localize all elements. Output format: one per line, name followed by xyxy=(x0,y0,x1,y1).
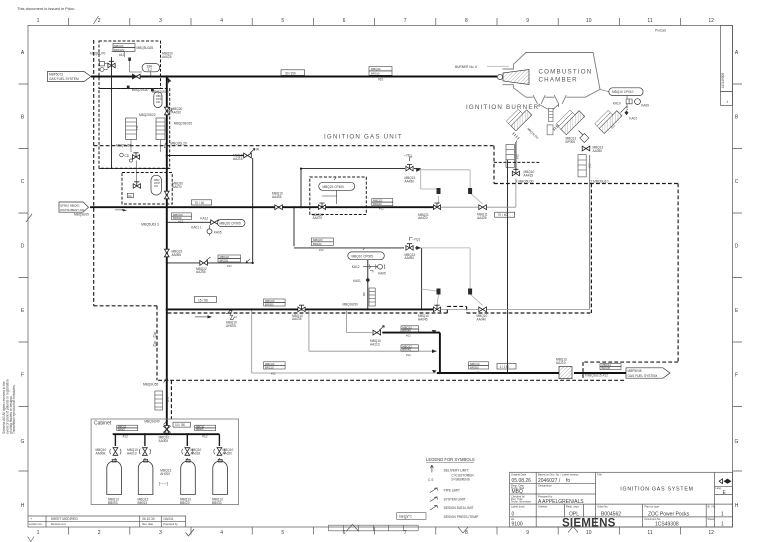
svg-text:4: 4 xyxy=(220,530,223,536)
svg-text:LEGEND FOR SYMBOLS: LEGEND FOR SYMBOLS xyxy=(426,457,475,462)
svg-text:2046027 /: 2046027 / xyxy=(538,478,561,484)
svg-text:MBQSU55: MBQSU55 xyxy=(143,383,158,387)
svg-text:Revision text: Revision text xyxy=(51,522,66,526)
boundary: unit upper-right edge xyxy=(494,183,678,185)
svg-text:BR007: BR007 xyxy=(118,428,126,431)
svg-text:0: 0 xyxy=(512,512,515,518)
svg-text:1CS49308: 1CS49308 xyxy=(655,521,679,527)
vertical label boxes xyxy=(155,145,592,411)
svg-text:30 /190: 30 /190 xyxy=(285,71,296,75)
node MBP5045 gas fuel system outlet flag xyxy=(626,368,670,378)
svg-text:1: 1 xyxy=(727,100,729,104)
svg-text:QFB10 MBQ01: QFB10 MBQ01 xyxy=(60,203,80,207)
node MBP5073 gas fuel system inlet flag xyxy=(48,72,92,82)
svg-text:AA040: AA040 xyxy=(477,318,487,322)
svg-text:Prepared by: Prepared by xyxy=(538,494,553,498)
right ticks xyxy=(733,84,743,471)
big dashed unit boundary xyxy=(94,40,678,419)
bottom-left revision table xyxy=(28,516,186,527)
gray actuator loops xyxy=(421,170,483,306)
svg-text:BB013: BB013 xyxy=(138,501,148,505)
stacked 2row labels xyxy=(195,67,621,431)
svg-text:9: 9 xyxy=(526,530,529,536)
wire: CP005 sensing line xyxy=(367,259,369,309)
gray secondary lines xyxy=(252,155,590,373)
svg-text:Prepared by: Prepared by xyxy=(164,522,179,526)
svg-text:RA1: RA1 xyxy=(164,126,168,132)
valve MBQ10 AA045 on H5 xyxy=(418,305,441,321)
svg-text:AA020: AA020 xyxy=(223,451,233,455)
svg-text:MBQ20 CF905: MBQ20 CF905 xyxy=(220,222,241,226)
svg-text:Letzten rev.: Letzten rev. xyxy=(29,522,43,526)
svg-text:G: G xyxy=(735,439,739,445)
svg-text:6: 6 xyxy=(343,18,346,24)
wire: cabinet bottle manifold xyxy=(113,433,220,435)
main pipe lines dark xyxy=(90,77,626,435)
svg-text:BR010: BR010 xyxy=(371,71,380,75)
svg-text:AA213: AA213 xyxy=(370,342,380,346)
svg-text:S=SIEMENS: S=SIEMENS xyxy=(451,478,469,482)
svg-text:BR205: BR205 xyxy=(220,259,229,263)
param boxes xyxy=(173,70,516,427)
svg-text:TMBQSU15 #12: TMBQSU15 #12 xyxy=(585,373,609,377)
svg-text:#12: #12 xyxy=(178,220,184,224)
boundary: unit edge rise at burner xyxy=(493,146,495,184)
wire: lower header to outlet line xyxy=(252,309,437,373)
svg-text:2: 2 xyxy=(98,18,101,24)
boundary: delivery limit to cabinet xyxy=(170,380,172,419)
svg-text:+: + xyxy=(30,517,32,521)
svg-text:#10: #10 xyxy=(378,78,384,82)
svg-text:BR010V: BR010V xyxy=(114,48,125,52)
bottom ticks xyxy=(69,527,681,535)
svg-text:H: H xyxy=(21,503,25,509)
svg-text:Rev. date: Rev. date xyxy=(142,522,153,526)
svg-text:Plant or type: Plant or type xyxy=(645,504,660,508)
svg-text:AA430: AA430 xyxy=(405,179,415,183)
wire: ignition gas line MBQ10 lower header xyxy=(167,308,433,310)
boundary: burner interface stub xyxy=(494,161,540,163)
svg-text:ProCad: ProCad xyxy=(655,29,666,33)
svg-text:Document No.: Document No. xyxy=(645,517,662,521)
svg-text:Based on Doc. No. / Latest rev: Based on Doc. No. / Latest revision xyxy=(538,473,579,477)
wire: gas branch to valve MBQ13 AA450 xyxy=(294,207,404,248)
wire: vent branch to valve MBQ20 AA215 xyxy=(167,155,245,157)
svg-text:KA05: KA05 xyxy=(378,272,386,276)
valve MBQ12 AA470 in CP400 box xyxy=(313,203,326,220)
svg-text:BP005: BP005 xyxy=(566,140,576,144)
svg-text:C: C xyxy=(21,179,25,185)
svg-text:MBQ23 CP400: MBQ23 CP400 xyxy=(323,185,345,189)
svg-text:D: D xyxy=(21,244,25,250)
svg-text:#12: #12 xyxy=(119,53,125,57)
svg-text:1CS49308: 1CS49308 xyxy=(721,73,725,88)
valve MBQ10 AA415 igniter air xyxy=(512,169,534,183)
svg-text:BR050: BR050 xyxy=(470,365,479,369)
svg-text:#12: #12 xyxy=(406,334,411,338)
svg-text:AA415: AA415 xyxy=(524,173,534,177)
left lance xyxy=(506,105,532,131)
KA cluster left xyxy=(141,213,245,236)
valve MBQ21 AA420 xyxy=(418,203,441,220)
svg-text:Original Date: Original Date xyxy=(511,473,527,477)
svg-text:MBQ5U05: MBQ5U05 xyxy=(74,213,89,217)
valve MBQ13 AA450 xyxy=(405,238,421,261)
svg-text:AA010: AA010 xyxy=(172,111,182,115)
svg-text:AA405: AA405 xyxy=(272,195,282,199)
svg-text:MBQSU40: MBQSU40 xyxy=(144,420,159,424)
wire: outlet header to slide valve xyxy=(437,372,561,374)
valve MBQ10 AA040 on H5 xyxy=(477,307,488,322)
svg-text:COMBUSTION: COMBUSTION xyxy=(539,69,593,76)
svg-text:Sheet: Sheet xyxy=(708,517,715,521)
svg-text:AA045: AA045 xyxy=(418,318,428,322)
svg-text:#12: #12 xyxy=(475,371,480,375)
valve MBQ13 AA430 xyxy=(404,154,416,184)
svg-text:CD: CD xyxy=(125,154,130,158)
svg-text:KA12: KA12 xyxy=(200,216,208,220)
vert stadium below B1 xyxy=(154,92,163,108)
hatched slide valve MBQ13 AA210 xyxy=(556,358,572,379)
svg-text:#12: #12 xyxy=(202,435,208,439)
boundary: unit left edge xyxy=(93,40,95,306)
svg-text:040: 040 xyxy=(156,101,161,104)
svg-text:BR040: BR040 xyxy=(402,329,411,333)
svg-text:12: 12 xyxy=(708,18,714,24)
svg-text:F: F xyxy=(735,373,738,379)
vent valve W at 249,155.5 xyxy=(233,148,259,162)
CP400 box contents xyxy=(319,178,355,205)
wire: central gas supply riser MBQ10 xyxy=(166,77,168,435)
svg-text:Techn. dimension: Techn. dimension xyxy=(511,500,532,504)
KA chain right xyxy=(609,88,649,121)
svg-text:7: 7 xyxy=(404,18,407,24)
svg-text:fo: fo xyxy=(566,478,570,484)
svg-text:H: H xyxy=(735,503,739,509)
wire: AA450 gas drop to lower header xyxy=(421,248,423,310)
svg-text:AA013: AA013 xyxy=(127,451,137,455)
svg-text:BR045: BR045 xyxy=(402,348,411,352)
svg-text:SYSTEM LIMIT: SYSTEM LIMIT xyxy=(444,498,466,502)
svg-text:GAS FUEL SYSTEM: GAS FUEL SYSTEM xyxy=(628,374,658,378)
wire: air line AA420 to AA425 xyxy=(441,206,478,208)
svg-text:HL: HL xyxy=(511,517,515,521)
hand valve MBQBU70 xyxy=(100,61,116,71)
svg-text:MBQBU70: MBQBU70 xyxy=(90,52,105,56)
svg-text:MBQ: MBQ xyxy=(512,489,524,495)
svg-text:AA035: AA035 xyxy=(292,317,302,321)
combustion chamber outline xyxy=(503,53,601,108)
svg-text:CHAMBER: CHAMBER xyxy=(539,77,578,84)
svg-text:KA12: KA12 xyxy=(352,265,360,269)
svg-text:MBQ5U325: MBQ5U325 xyxy=(137,46,154,50)
svg-text:Order No.: Order No. xyxy=(597,504,609,508)
svg-text:12: 12 xyxy=(708,530,714,536)
svg-text:BB033: BB033 xyxy=(212,501,222,505)
burner nozzle xyxy=(497,70,529,85)
svg-text:AA206: AA206 xyxy=(196,270,206,274)
svg-text:70 / 60: 70 / 60 xyxy=(498,213,508,217)
svg-text:10: 10 xyxy=(586,530,592,536)
wire: air line AA425 up to igniter valve AA415 xyxy=(487,178,516,207)
svg-text:IGNITION GAS SYSTEM: IGNITION GAS SYSTEM xyxy=(620,487,693,493)
wire: AA430 outlet stub xyxy=(414,168,421,170)
box: pressure reducing skid stage 2 xyxy=(99,89,170,169)
svg-text:MBQSU65: MBQSU65 xyxy=(116,144,131,148)
boundary: unit right edge xyxy=(677,184,679,363)
valve MBQ20 AA010 xyxy=(164,107,182,115)
svg-text:BB023: BB023 xyxy=(180,501,190,505)
svg-text:#12: #12 xyxy=(379,207,384,211)
svg-text:9: 9 xyxy=(526,18,529,24)
valve MBQ11 AA425 xyxy=(477,205,488,220)
svg-text:1: 1 xyxy=(721,522,724,528)
svg-text:This document is issued in Pdo: This document is issued in Pdoc. xyxy=(17,6,75,11)
svg-text:AH005: AH005 xyxy=(226,324,236,328)
svg-text:KA01: KA01 xyxy=(353,279,361,283)
svg-text:MBQSU50: MBQSU50 xyxy=(343,303,358,307)
box: pressure reducing skid stage 3 xyxy=(122,173,172,205)
wire: instrument air header QFB10/MBQ01 xyxy=(90,206,433,208)
svg-text:70 / 40: 70 / 40 xyxy=(195,201,205,205)
svg-text:BB003: BB003 xyxy=(108,501,118,505)
valve MBQ10 AA005 above cabinet xyxy=(159,426,171,444)
delivery limit markers xyxy=(164,380,167,425)
top-right doc tab xyxy=(721,25,733,105)
center-right gas lance xyxy=(556,106,585,135)
svg-text:C: C xyxy=(735,179,739,185)
valve MBQ13 AA050 xyxy=(582,146,603,154)
B3 inner valve xyxy=(127,182,140,198)
svg-text:BR020: BR020 xyxy=(313,242,322,246)
svg-text:AA008: AA008 xyxy=(96,451,106,455)
top ticks xyxy=(69,18,681,25)
squiggle hose on D11 xyxy=(226,311,237,320)
svg-text:ZOC Power Pocks: ZOC Power Pocks xyxy=(648,512,690,518)
svg-text:W: W xyxy=(256,148,259,152)
wire: pilot air loop to actuators of AA420/AA425 xyxy=(421,170,470,193)
boundary: outlet box top xyxy=(583,361,678,363)
svg-text:F: F xyxy=(21,373,24,379)
svg-text:AA050: AA050 xyxy=(593,149,603,153)
boundary: ignition gas unit top edge xyxy=(94,145,494,147)
svg-text:1 / 150: 1 / 150 xyxy=(500,365,510,369)
svg-text:#12: #12 xyxy=(271,372,276,376)
svg-text:AH010: AH010 xyxy=(160,472,170,476)
wire: vent branch 2 xyxy=(309,311,437,351)
wire: gas fuel system outlet to MBP5045 xyxy=(574,372,626,374)
B2 CD valve xyxy=(120,153,140,162)
svg-text:G: G xyxy=(21,439,25,445)
svg-text:11: 11 xyxy=(647,530,652,536)
center tube xyxy=(539,105,558,135)
svg-text:AA065: AA065 xyxy=(172,253,182,257)
bottom center fold band xyxy=(28,525,579,542)
svg-text:AA070: AA070 xyxy=(172,185,182,189)
svg-text:~YE1: ~YE1 xyxy=(404,154,412,158)
wire: pressure reducing branch at MBQBU70 xyxy=(111,57,113,168)
svg-text:DELIVERY LIMIT:: DELIVERY LIMIT: xyxy=(444,469,469,473)
wire: igniter air lance feed xyxy=(515,142,517,170)
svg-text:AA420: AA420 xyxy=(418,216,428,220)
svg-text:MBQ20E015: MBQ20E015 xyxy=(174,121,192,125)
wire: actuator stems AA045/AA040 xyxy=(437,294,483,306)
svg-text:10 / 56: 10 / 56 xyxy=(175,423,185,427)
flow arrows xyxy=(115,77,437,382)
svg-text:Cabinet: Cabinet xyxy=(94,421,112,427)
wire: gas line AA045 to AA040 xyxy=(437,308,478,310)
svg-text:#12: #12 xyxy=(319,248,324,252)
svg-text:#12: #12 xyxy=(227,264,232,268)
svg-text:MBQ5U63 3: MBQ5U63 3 xyxy=(141,223,159,227)
svg-text:DA/CA: DA/CA xyxy=(164,517,175,521)
svg-text:1: 1 xyxy=(37,530,40,536)
fold slashes xyxy=(26,16,99,222)
svg-text:KA05: KA05 xyxy=(214,231,222,235)
left ticks xyxy=(19,84,29,471)
svg-text:Title: Title xyxy=(597,473,602,477)
wire: gas line AA040 up to igniter lance xyxy=(487,308,590,310)
small KA valve xyxy=(211,220,219,225)
svg-text:3: 3 xyxy=(159,530,162,536)
svg-text:MBP5073: MBP5073 xyxy=(49,72,63,76)
svg-text:Lang.: Lang. xyxy=(716,487,722,490)
svg-text:06.10.30: 06.10.30 xyxy=(142,517,155,521)
svg-text:05.08.26: 05.08.26 xyxy=(512,478,532,484)
wire: pilot gas loop to actuators of AA045/AA040 xyxy=(422,248,471,289)
svg-text:KA01: KA01 xyxy=(629,117,637,121)
svg-text:MBQ20S15: MBQ20S15 xyxy=(152,90,169,94)
svg-text:Latest trans: Latest trans xyxy=(511,504,525,508)
svg-text:1: 1 xyxy=(721,512,724,518)
svg-text:#12: #12 xyxy=(406,353,411,357)
wire: AA450 outlet stub xyxy=(415,247,421,249)
svg-text:AA025: AA025 xyxy=(162,55,172,59)
svg-text:MBQ40: MBQ40 xyxy=(371,67,381,71)
svg-text:Bl. i.W.: Bl. i.W. xyxy=(708,504,716,508)
svg-text:11: 11 xyxy=(647,18,652,24)
svg-text:DESIGN PRESS./TEMP.: DESIGN PRESS./TEMP. xyxy=(444,515,479,519)
node QFB10/MBQ01 instrument air inlet flag xyxy=(59,202,89,217)
svg-text:Ø8: Ø8 xyxy=(362,292,366,296)
valve MBQ10 AA405 xyxy=(272,192,283,210)
svg-text:5: 5 xyxy=(281,530,284,536)
svg-text:SIEMENS: SIEMENS xyxy=(562,517,616,530)
svg-text:IGNITION BURNER: IGNITION BURNER xyxy=(466,104,539,111)
svg-text:A APPELGREN/ALS: A APPELGREN/ALS xyxy=(538,499,584,505)
svg-text:1: 1 xyxy=(37,18,40,24)
svg-text:010: 010 xyxy=(154,185,159,188)
wire: vent drop pipe xyxy=(252,158,254,263)
bottle valves xyxy=(110,448,225,456)
svg-text:~YQ1: ~YQ1 xyxy=(412,238,420,242)
wire: branch to valve MBQ22 AA206 xyxy=(167,262,253,264)
svg-text:Transmittal reproduction forbi: Transmittal reproduction forbidden. xyxy=(12,385,16,434)
svg-text:AA215: AA215 xyxy=(233,157,243,161)
svg-text:BR210: BR210 xyxy=(265,365,274,369)
actuator boxes + stems (gray loops ends) xyxy=(437,188,473,295)
svg-text:3: 3 xyxy=(159,18,162,24)
svg-text:#12: #12 xyxy=(516,154,520,159)
svg-text:2 MBQSU10: 2 MBQSU10 xyxy=(591,180,609,184)
svg-text:AA005: AA005 xyxy=(159,439,169,443)
svg-text:8: 8 xyxy=(465,18,468,24)
relief stadium 18A 3.2 xyxy=(142,64,160,77)
right igniter lance xyxy=(595,106,622,133)
wire: vent line to outlet junction xyxy=(382,333,440,373)
CP005 + KA right cluster xyxy=(343,248,387,307)
wire: reducing station bottom header xyxy=(99,168,170,170)
svg-text:AA450: AA450 xyxy=(405,256,415,260)
svg-text:BR045: BR045 xyxy=(602,366,611,370)
svg-text:PIPE LIMIT: PIPE LIMIT xyxy=(444,489,460,493)
svg-text:[∼∼]: [∼∼] xyxy=(159,481,168,486)
wire: pilot air line to valve MBQ13 AA430 xyxy=(301,168,405,170)
svg-text:AA210: AA210 xyxy=(556,361,566,365)
svg-text:C S: C S xyxy=(428,478,433,482)
svg-text:8: 8 xyxy=(465,530,468,536)
vent valve MBQ10 AA213 xyxy=(370,326,384,347)
svg-text:GAS FUEL SYSTEM: GAS FUEL SYSTEM xyxy=(49,77,79,81)
valve MBQ22 AA206 xyxy=(196,257,211,274)
box: pressure switch MBQ23 CP400 xyxy=(310,177,367,215)
box: pressure reducing skid stage 1 xyxy=(99,41,161,89)
svg-text:#12: #12 xyxy=(135,125,139,130)
svg-text:MBP5045: MBP5045 xyxy=(628,369,642,373)
svg-text:MBQ10 CP010: MBQ10 CP010 xyxy=(612,90,634,94)
svg-text:X MBQ5U30: X MBQ5U30 xyxy=(516,179,534,183)
svg-text:MBQ10 CP005: MBQ10 CP005 xyxy=(352,254,374,258)
boundary: inner delivery limit right drop xyxy=(590,184,592,314)
svg-text:DESIGN DATA LIMIT: DESIGN DATA LIMIT xyxy=(444,506,474,510)
left rotated copyright block xyxy=(2,379,16,434)
svg-text:KA01 L: KA01 L xyxy=(191,225,202,229)
wire: actuator feed stub xyxy=(422,289,437,291)
svg-text:5: 5 xyxy=(281,18,284,24)
legend xyxy=(397,457,479,519)
svg-text:AA470: AA470 xyxy=(313,216,323,220)
wire: actuator stems AA420/AA425 xyxy=(439,193,483,204)
bottles xyxy=(107,460,228,495)
company diamond logo xyxy=(719,479,731,484)
svg-text:NC: NC xyxy=(128,194,132,198)
wire: air riser to pilot line xyxy=(300,169,302,208)
wire: branch to solenoid rack KA12 xyxy=(167,221,215,223)
wire: vent branch 1 to valve AA213 xyxy=(347,311,373,333)
svg-text:MBQ20L20: MBQ20L20 xyxy=(171,142,187,146)
boundary: outlet box left xyxy=(582,362,584,380)
svg-text:SHEET MODIFIED: SHEET MODIFIED xyxy=(51,517,79,521)
wire: main gas fuel header MBQ40 to burner xyxy=(91,76,497,78)
svg-text:#12: #12 xyxy=(588,163,592,168)
boundary: inner delivery limit along lower header xyxy=(168,306,592,313)
valve MBQ20 AA040 main line xyxy=(133,74,141,79)
svg-text:D: D xyxy=(735,244,739,250)
svg-text:BR050: BR050 xyxy=(265,303,274,307)
svg-text:15 / 66: 15 / 66 xyxy=(198,299,208,303)
svg-text:4: 4 xyxy=(220,18,223,24)
boundary: left bottom jog xyxy=(94,305,157,307)
svg-text:BR005: BR005 xyxy=(196,428,204,431)
svg-text:3.2: 3.2 xyxy=(148,68,153,72)
svg-text:KA10: KA10 xyxy=(613,102,621,106)
svg-text:2: 2 xyxy=(98,530,101,536)
boundary: left edge to cabinet xyxy=(156,306,158,381)
svg-text:9100: 9100 xyxy=(512,522,523,528)
svg-text:INSTRUMENT AIR: INSTRUMENT AIR xyxy=(60,208,84,212)
svg-text:bar(g)/°C: bar(g)/°C xyxy=(399,515,413,519)
svg-text:#12: #12 xyxy=(123,435,129,439)
